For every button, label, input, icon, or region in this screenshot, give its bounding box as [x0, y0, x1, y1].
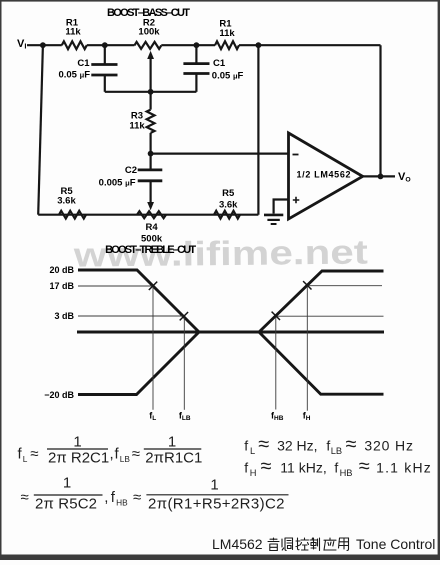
- resistor R5 right: [214, 211, 240, 219]
- potentiometer R4: [137, 211, 166, 218]
- vertical fL line: [152, 286, 154, 410]
- wire non-inverting input to ground: [274, 200, 289, 214]
- svg-text:f: f: [334, 460, 338, 476]
- junction dot wiper/R3: [148, 89, 154, 95]
- svg-text:0.05 μF: 0.05 μF: [58, 70, 90, 81]
- junction dot R3/C2/minus-wire: [148, 151, 154, 157]
- svg-text:R4: R4: [146, 222, 159, 233]
- svg-text:11 kHz,: 11 kHz,: [280, 460, 326, 476]
- output wire and VO: [363, 175, 395, 177]
- feedback wire down: [379, 45, 381, 176]
- svg-text:f: f: [244, 460, 248, 476]
- svg-text:C1: C1: [213, 58, 226, 69]
- capacitor C2: [150, 154, 152, 170]
- caption glyph diao: [282, 538, 293, 551]
- caption glyph kong: [296, 538, 309, 550]
- svg-text:LB: LB: [331, 446, 342, 456]
- svg-text:2π R2C1: 2π R2C1: [48, 449, 109, 466]
- X mark fH: [303, 281, 311, 289]
- svg-text:3.6k: 3.6k: [57, 196, 76, 207]
- svg-text:R5: R5: [222, 188, 235, 199]
- svg-text:≈: ≈: [258, 434, 269, 456]
- svg-text:,: ,: [110, 446, 114, 463]
- graph top-left shelf: [78, 270, 199, 332]
- thin 17dB line right: [307, 285, 382, 287]
- graph bottom-left shelf: [78, 332, 199, 395]
- svg-text:−20 dB: −20 dB: [44, 390, 74, 400]
- svg-text:2π R5C2: 2π R5C2: [35, 495, 97, 512]
- thin 3dB line left: [78, 315, 185, 317]
- svg-text:11k: 11k: [129, 121, 145, 132]
- thin 17dB line left: [78, 285, 154, 287]
- vertical fHB line: [275, 316, 277, 410]
- op-amp U1 1/2 LM4562: [289, 133, 363, 219]
- caption glyph zhi: [310, 538, 320, 551]
- border frame: [0, 0, 440, 2]
- svg-text:3.6k: 3.6k: [219, 200, 238, 211]
- caption glyph yong: [339, 538, 349, 551]
- capacitor C1 right: [195, 45, 197, 63]
- svg-text:≈: ≈: [21, 489, 29, 506]
- svg-text:≈: ≈: [261, 456, 272, 478]
- svg-text:1/2 LM4562: 1/2 LM4562: [297, 170, 351, 180]
- svg-text:L: L: [23, 454, 28, 464]
- svg-text:1: 1: [73, 433, 81, 450]
- svg-text:2πR1C1: 2πR1C1: [145, 449, 202, 466]
- svg-text:0.05 μF: 0.05 μF: [212, 71, 244, 82]
- X mark fL: [149, 282, 157, 290]
- X mark fLB: [180, 312, 188, 320]
- wire R1 to node A: [87, 44, 135, 46]
- potentiometer R2: [134, 42, 161, 49]
- vertical fH line: [306, 285, 308, 410]
- svg-text:LM4562: LM4562: [212, 536, 263, 552]
- bottom rail wire: [38, 214, 258, 216]
- capacitor C1 left: [104, 45, 106, 64]
- caption glyph ying: [324, 538, 336, 550]
- vertical fLB line: [183, 317, 185, 410]
- svg-text:HB: HB: [340, 468, 353, 478]
- node B dot: [194, 42, 200, 48]
- svg-text:HB: HB: [116, 497, 128, 507]
- wire VI node down to bottom rail: [38, 45, 43, 215]
- graph center line: [77, 331, 384, 334]
- resistor R3: [150, 92, 152, 110]
- R2 wiper arrow: [150, 58, 152, 92]
- svg-text:≈: ≈: [359, 456, 370, 478]
- svg-text:C2: C2: [125, 165, 137, 176]
- svg-text:1: 1: [210, 477, 218, 494]
- wire node B to R1 right: [161, 44, 215, 46]
- svg-text:,: ,: [104, 489, 108, 506]
- node A dot: [102, 42, 108, 48]
- resistor R1 left: [62, 41, 87, 49]
- thin 3dB line right: [276, 315, 384, 317]
- junction dot VI node: [40, 42, 46, 48]
- wire VI to R1: [27, 44, 62, 46]
- svg-text:1: 1: [168, 433, 176, 450]
- resistor R5 left: [59, 211, 86, 219]
- node C dot: [256, 42, 262, 48]
- svg-text:≈: ≈: [346, 434, 357, 456]
- svg-text:1.1 kHz: 1.1 kHz: [376, 460, 432, 476]
- svg-text:11k: 11k: [65, 27, 81, 38]
- wire to inverting input: [151, 153, 289, 155]
- svg-text:20 dB: 20 dB: [49, 265, 74, 275]
- svg-text:H: H: [250, 468, 257, 478]
- svg-text:≈: ≈: [132, 446, 140, 463]
- svg-text:100k: 100k: [138, 27, 160, 38]
- svg-text:1: 1: [63, 475, 71, 492]
- svg-text:C1: C1: [77, 58, 90, 69]
- wire node C down to bottom rail: [257, 45, 259, 215]
- svg-text:0.005 μF: 0.005 μF: [99, 178, 136, 189]
- graph top-right shelf: [259, 271, 384, 332]
- caption glyph yin: [268, 538, 279, 551]
- svg-text:≈: ≈: [133, 489, 141, 506]
- graph bottom-right shelf: [259, 332, 384, 394]
- C2 to R4 wiper arrow: [150, 181, 152, 204]
- resistor R1 right: [215, 41, 239, 49]
- svg-text:3 dB: 3 dB: [54, 311, 74, 321]
- svg-text:11k: 11k: [219, 28, 235, 39]
- svg-text:≈: ≈: [30, 446, 38, 463]
- svg-text:2π(R1+R5+2R3)C2: 2π(R1+R5+2R3)C2: [148, 496, 285, 513]
- svg-text:32 Hz,: 32 Hz,: [277, 438, 317, 454]
- ground: [264, 214, 283, 217]
- svg-text:Tone Control: Tone Control: [356, 536, 435, 552]
- svg-text:L: L: [250, 446, 255, 456]
- svg-text:BOOST–TREBLE–CUT: BOOST–TREBLE–CUT: [105, 244, 196, 256]
- svg-text:17 dB: 17 dB: [49, 281, 74, 291]
- wire C1 bottoms rail: [105, 91, 197, 93]
- svg-text:LB: LB: [120, 454, 131, 464]
- X mark fHB: [272, 312, 280, 320]
- svg-text:f: f: [244, 438, 248, 454]
- wire node C to feedback corner: [239, 44, 381, 46]
- svg-text:320 Hz: 320 Hz: [364, 438, 413, 454]
